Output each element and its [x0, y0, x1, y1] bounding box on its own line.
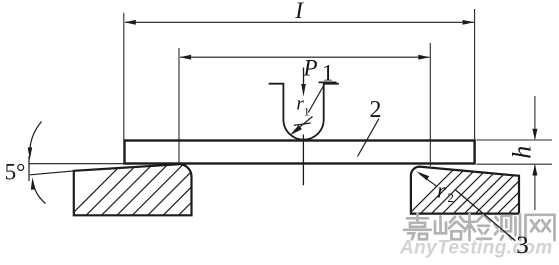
wire: inner dimension left extension line: [178, 48, 180, 164]
svg-text:h: h: [508, 146, 537, 159]
svg-text:1: 1: [304, 105, 310, 119]
node h: specimen thickness dimension: [477, 139, 553, 141]
svg-text:5°: 5°: [5, 160, 26, 185]
node 3: support label and leader: [455, 190, 515, 241]
svg-text:P: P: [303, 56, 318, 81]
svg-text:2: 2: [370, 97, 382, 123]
wire: angle vertex tick: [28, 156, 30, 181]
char ce: [495, 214, 521, 240]
char jian: [464, 214, 491, 240]
svg-text:r: r: [437, 178, 446, 203]
wire: inner extension crossing specimen right: [429, 141, 431, 166]
wire: inner extension crossing specimen left: [178, 141, 180, 164]
wire: inner span dimension line: [180, 56, 430, 58]
ground: right support block: [411, 167, 519, 214]
watermark chinese characters: [404, 214, 555, 241]
svg-text:3: 3: [516, 232, 529, 259]
wire: outer dimension left extension line: [123, 13, 125, 140]
svg-text:2: 2: [447, 190, 454, 205]
specimen bar 2: [125, 141, 475, 164]
svg-text:AnyTesting.com: AnyTesting.com: [399, 238, 553, 259]
op-amp U1: loading nose (indenter) outline: [269, 84, 339, 140]
char jia: [404, 214, 431, 240]
wire: outer dimension right extension line: [474, 9, 476, 140]
wire: tilted support face line: [30, 171, 75, 175]
wire: lower angle arc with arrow: [33, 181, 46, 204]
left support hatching: [55, 161, 248, 231]
wire: inner dimension right extension line: [429, 43, 431, 164]
char yu: [435, 216, 464, 239]
right support hatching: [395, 158, 559, 228]
svg-text:I: I: [294, 0, 304, 23]
wire: upper angle arc with arrow: [30, 122, 42, 156]
char wang: [526, 215, 555, 241]
node P: load force arrow: [303, 68, 305, 89]
wire: outer span dimension line l: [125, 21, 474, 23]
wire: horizontal reference line: [30, 163, 127, 165]
wire: vertical centreline below indenter: [302, 135, 304, 186]
